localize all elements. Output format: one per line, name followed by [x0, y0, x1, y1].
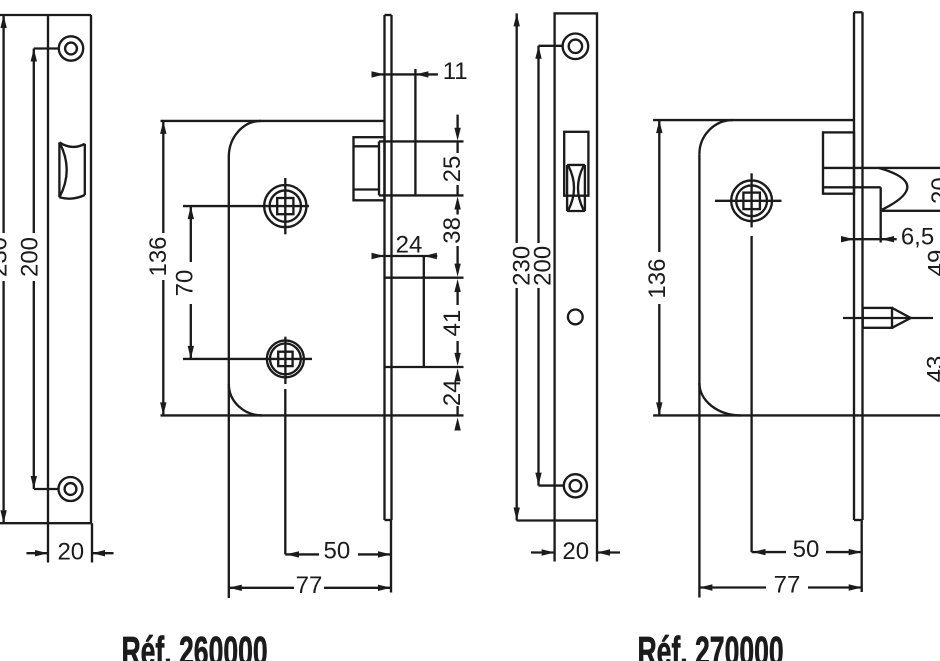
dimension 77 lock 1	[229, 520, 391, 599]
svg-text:50: 50	[324, 538, 351, 565]
deadbolt box side view lock 1	[385, 278, 464, 367]
svg-text:136: 136	[644, 259, 671, 299]
screw hole bottom lock 2	[564, 474, 587, 497]
svg-text:41: 41	[439, 310, 466, 337]
svg-text:Réf. 260000: Réf. 260000	[121, 629, 267, 661]
svg-text:200: 200	[17, 237, 44, 277]
svg-text:25: 25	[439, 156, 466, 183]
dimension 200 lock 2	[530, 46, 564, 486]
follower hub upper lock 1	[183, 178, 309, 234]
svg-text:77: 77	[774, 572, 801, 599]
dimension chain 25 38 41 24 lock 1	[439, 115, 466, 431]
faceplate front view lock 2	[517, 13, 597, 520]
dimension 136 lock 1	[145, 121, 172, 416]
dimension 230 lock 1	[0, 15, 13, 523]
centerline to 50 dimension lock 2	[750, 236, 752, 552]
screw hole top lock 1	[59, 36, 83, 60]
latch bolt front view lock 1	[59, 142, 84, 198]
svg-text:50: 50	[793, 536, 820, 563]
svg-text:24: 24	[396, 232, 423, 259]
svg-text:136: 136	[145, 236, 172, 276]
svg-text:43: 43	[923, 356, 940, 383]
svg-text:230: 230	[0, 237, 13, 277]
dimension 20 lock 1	[27, 523, 114, 565]
dimension 200 lock 1	[17, 49, 59, 490]
dimension 77 lock 2	[699, 520, 861, 599]
lock body outline lock 1	[161, 121, 464, 598]
dimension 20 lock 2	[531, 521, 620, 565]
dimension 11 lock 1	[372, 58, 468, 195]
svg-text:20: 20	[562, 538, 589, 565]
deadbolt side view lock 2	[843, 308, 933, 328]
follower hub lower lock 1	[183, 337, 312, 384]
faceplate side view strip lock 2	[854, 12, 863, 520]
lock body outline lock 2	[653, 120, 940, 597]
screw hole top lock 2	[563, 34, 589, 60]
faceplate front view lock 1	[0, 15, 91, 523]
centerline to 50 dimension lock 1	[284, 389, 286, 554]
latch bolt front view lock 2	[567, 165, 585, 211]
svg-text:Réf. 270000: Réf. 270000	[638, 629, 784, 661]
latch bolt side view lock 1	[354, 137, 464, 200]
dimension 24 horizontal lock 1	[372, 232, 438, 368]
svg-text:20: 20	[927, 177, 940, 204]
dimension 230 lock 2	[508, 13, 535, 520]
screw hole bottom lock 1	[59, 477, 83, 501]
svg-text:20: 20	[57, 538, 84, 565]
dimension 6,5 lock 2	[841, 223, 934, 250]
dimension 50 lock 2	[752, 536, 862, 563]
svg-text:38: 38	[439, 217, 466, 244]
svg-text:70: 70	[172, 270, 199, 297]
faceplate side view strip lock 1	[385, 15, 392, 520]
svg-text:200: 200	[530, 246, 557, 286]
svg-text:24: 24	[439, 379, 466, 406]
deadbolt cutout front view lock 2	[564, 132, 588, 196]
svg-text:49: 49	[924, 250, 940, 277]
follower hub lock 2	[715, 173, 782, 227]
dimension 70 lock 1	[172, 206, 199, 359]
dimension 50 lock 1	[285, 538, 391, 565]
dimension 136 lock 2	[644, 120, 671, 415]
svg-text:11: 11	[443, 58, 468, 85]
svg-text:6,5: 6,5	[901, 223, 934, 250]
svg-text:77: 77	[296, 572, 323, 599]
release hole lock 2	[568, 310, 583, 325]
latch bolt assembly side view lock 2	[823, 132, 940, 242]
